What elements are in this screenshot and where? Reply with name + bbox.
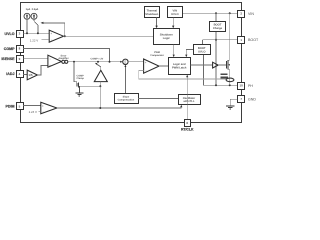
svg-text:RT/CLK: RT/CLK (181, 128, 194, 132)
clamp switch lever to sense amp (96, 64, 101, 67)
svg-text:+: + (50, 32, 52, 36)
wire: boot charge top stub (215, 13, 217, 21)
transistor power NMOS Q1 (227, 60, 231, 70)
node junction BOOT line x boot charge (215, 39, 217, 41)
redraw clock line over oscillator box (186, 95, 188, 105)
svg-text:−: − (145, 69, 147, 73)
svg-text:10: 10 (240, 84, 244, 88)
node junction sense amp return (99, 85, 101, 87)
op-amp PWM comparator (144, 59, 159, 73)
wire: VIN UVLO to VIN pin rail (183, 12, 238, 14)
node junction PDIM line sense amp return (99, 107, 101, 109)
box: Logic and PWM Latch (169, 58, 191, 75)
ground symbol near GND pin (226, 106, 234, 109)
wire: BOOT UVLO top stub (202, 40, 204, 45)
summing node sigma (123, 59, 128, 64)
svg-text:UVLO: UVLO (171, 13, 178, 16)
wire: current sense feedback into minus input (139, 71, 227, 79)
wire: PDIM pin to comparator (23, 105, 41, 107)
svg-text:1.24 V: 1.24 V (29, 110, 37, 114)
node junction comp pin branch (109, 61, 111, 63)
box: VIN UVLO (168, 7, 183, 18)
transistor COMP clamp (74, 62, 84, 93)
wire: ISENSE pin to error amp inverting input (23, 57, 48, 59)
pin ISENSE (1, 56, 23, 63)
svg-text:COMP = 2V: COMP = 2V (91, 57, 104, 60)
node junction comp clamp branch (73, 61, 75, 63)
wire: BOOT UVLO left elbow down to latch with arrow (186, 49, 193, 55)
svg-text:PDIM: PDIM (6, 105, 15, 109)
ground below COMP clamp (75, 93, 83, 96)
node junction on VIN rail at FET drain branch (229, 12, 231, 14)
wire: boot charge bottom to BOOT line down to driver and PH line (215, 31, 217, 85)
svg-text:Shutdown: Shutdown (145, 13, 158, 16)
op-amp 1/5 divider buffer (27, 70, 37, 80)
pin BOOT (238, 37, 259, 44)
node junction UVLO line switch (37, 32, 39, 34)
pin UVLO (5, 31, 24, 38)
node junction on VIN rail at boot charge (215, 12, 217, 14)
node junction PH line at FET source (229, 84, 231, 86)
pin COMP (4, 46, 24, 53)
node junction UVLO line c1 (26, 32, 28, 34)
svg-text:Logic and: Logic and (173, 63, 186, 66)
svg-text:UVLO: UVLO (5, 32, 15, 36)
svg-text:GND: GND (248, 97, 256, 101)
svg-text:Compensation: Compensation (118, 99, 135, 102)
pin IADJ (6, 71, 23, 78)
wire: driver to FET gate (218, 64, 226, 66)
wire: FET source down through sense oval to PH line (229, 69, 231, 85)
wire: VIN UVLO to shutdown logic arrow (172, 18, 174, 27)
hysteresis switch blade (33, 19, 35, 21)
wire: enable to shutdown logic (64, 35, 154, 37)
svg-text:VIN: VIN (248, 12, 254, 16)
svg-text:1µA: 1µA (26, 8, 31, 11)
current source 1uA (24, 8, 31, 19)
svg-text:IADJ: IADJ (6, 72, 14, 76)
wire: slope comp up into summing node (124, 66, 126, 94)
svg-text:UVLO: UVLO (198, 50, 205, 53)
wire: shutdown logic to PWM latch arrow (173, 45, 175, 56)
svg-text:PH: PH (248, 84, 253, 88)
svg-text:Comparator: Comparator (150, 54, 164, 57)
current sense oval (226, 78, 234, 82)
box: Oscillator with PLL (179, 95, 201, 105)
pin GND (238, 96, 257, 103)
svg-text:−: − (51, 38, 53, 42)
wire: slope comp to oscillator (138, 97, 178, 99)
op-amp error amplifier (48, 55, 62, 67)
box: BOOT Charge (210, 22, 226, 32)
op-amp current sense amplifier (points up) (94, 70, 107, 81)
wire: return line to clamp source (79, 85, 100, 87)
svg-text:1.22 V: 1.22 V (30, 39, 38, 43)
svg-text:BOOT: BOOT (248, 38, 259, 42)
svg-text:Shutdown: Shutdown (160, 33, 173, 36)
node junction enable comparator output (64, 35, 66, 37)
svg-text:with PLL: with PLL (182, 100, 195, 103)
current source 2.5uA (31, 8, 39, 19)
wire: IADJ pin to divider buffer (23, 73, 27, 75)
wire: buffer output up to error amp plus input (37, 65, 48, 75)
wire: sense amp base stub down (100, 82, 102, 87)
svg-text:Clamp: Clamp (77, 77, 85, 80)
svg-text:1/5: 1/5 (28, 73, 33, 77)
wire: latch to gate driver (190, 64, 212, 66)
wire: current source 1 down to UVLO line (26, 19, 28, 33)
svg-text:COMP: COMP (4, 47, 15, 51)
wire: thermal shutdown to shutdown logic arrow (156, 18, 158, 27)
box: Thermal Shutdown (145, 7, 160, 18)
wire: PDIM comparator output to oscillator enable (57, 106, 181, 108)
svg-text:Charge: Charge (213, 27, 223, 30)
pin VIN (238, 11, 255, 18)
wire: UVLO pin to enable comparator (23, 32, 49, 34)
op-amp gate driver (213, 62, 219, 68)
gm output circles (62, 60, 65, 63)
node junction clamp switch (97, 61, 99, 63)
outer IC boundary box (21, 3, 242, 123)
wire: COMP pin over to error amp output node (23, 48, 110, 61)
wire: BOOT line (203, 39, 238, 41)
wire: error amp output line to summing node (68, 61, 122, 63)
label current sense block (dark text bars) (221, 74, 229, 79)
box: Slope Compensation (115, 94, 139, 104)
pin RT/CLK (181, 120, 194, 132)
svg-text:2.5µA: 2.5µA (32, 8, 39, 11)
wire: BOOT UVLO bottom sense down to PH line (204, 55, 238, 86)
svg-text:Logic: Logic (163, 37, 171, 40)
wire: VIN rail down to FET drain (229, 13, 231, 60)
pin PH (238, 83, 254, 90)
svg-text:−: − (49, 57, 51, 61)
wire: switch control arrow from enable comparator output (43, 23, 65, 36)
svg-text:PWM Latch: PWM Latch (172, 66, 187, 69)
svg-text:−: − (42, 110, 44, 114)
pin PDIM (6, 103, 24, 110)
op-amp PDIM comparator (41, 102, 57, 114)
wire: summing node to PWM comparator (128, 61, 144, 63)
wire: GND pin to ground symbol (230, 99, 237, 106)
svg-text:+: + (145, 61, 147, 65)
node junction PH line at driver return (215, 84, 217, 86)
wire: PWM comparator to latch (159, 65, 168, 67)
box: BOOT UVLO (194, 45, 211, 55)
svg-text:+: + (42, 104, 44, 108)
svg-text:ISENSE: ISENSE (1, 57, 15, 61)
op-amp enable comparator (49, 30, 63, 42)
svg-text:+: + (49, 64, 51, 68)
box: Shutdown Logic (154, 29, 180, 45)
wire: oscillator clock up to latch and RT/CLK pin line (186, 76, 188, 120)
wire: down to PDIM comparator output line (99, 86, 101, 108)
